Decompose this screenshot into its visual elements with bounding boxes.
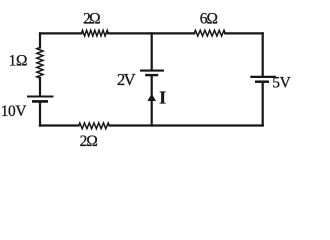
svg-text:I: I xyxy=(159,87,166,107)
svg-text:2V: 2V xyxy=(117,70,136,89)
svg-text:2Ω: 2Ω xyxy=(83,10,101,27)
svg-text:6Ω: 6Ω xyxy=(200,10,218,27)
svg-text:10V: 10V xyxy=(1,103,27,120)
svg-text:2Ω: 2Ω xyxy=(80,133,98,150)
svg-text:1Ω: 1Ω xyxy=(9,52,28,69)
svg-text:5V: 5V xyxy=(272,75,291,92)
